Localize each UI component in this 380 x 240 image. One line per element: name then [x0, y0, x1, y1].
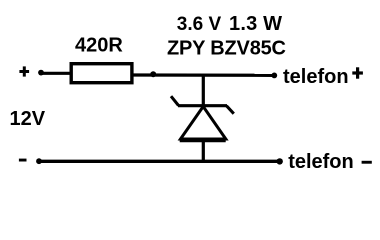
- node junction dot after resistor: [150, 71, 156, 77]
- terminal + (input plus sign): [19, 66, 29, 76]
- svg-text:telefon: telefon: [283, 66, 349, 88]
- terminal - (telefon minus sign): [362, 161, 372, 164]
- wire input + to resistor: [40, 72, 70, 75]
- node input + terminal dot: [38, 70, 44, 76]
- wire diode anode to bottom rail: [202, 140, 205, 162]
- resistor R 420R: [71, 64, 132, 83]
- svg-text:ZPY BZV85C: ZPY BZV85C: [167, 38, 286, 60]
- terminal + (telefon plus sign): [352, 67, 363, 78]
- node telefon - terminal dot: [277, 158, 283, 164]
- wire resistor to telefon +: [132, 73, 274, 77]
- diode D zener left hook: [171, 96, 179, 105]
- svg-text:telefon: telefon: [288, 151, 354, 173]
- svg-text:1.3 W: 1.3 W: [229, 13, 282, 35]
- svg-text:3.6 V: 3.6 V: [177, 14, 222, 35]
- diode D zener anode base bar: [180, 138, 226, 143]
- terminal - (input minus sign): [19, 159, 27, 162]
- diode D zener cathode bar: [178, 104, 227, 107]
- svg-text:420R: 420R: [75, 35, 123, 57]
- wire diode cathode to top rail: [202, 75, 205, 106]
- node input - terminal dot: [36, 158, 42, 164]
- diode D zener right hook: [227, 106, 234, 114]
- node telefon + terminal dot: [271, 73, 277, 79]
- diode D zener triangle: [181, 107, 226, 140]
- wire bottom rail: [39, 160, 280, 163]
- svg-text:12V: 12V: [10, 108, 46, 130]
